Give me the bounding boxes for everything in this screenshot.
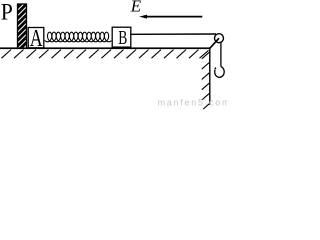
field arrow: [139, 15, 202, 19]
hook tip: [215, 67, 217, 69]
hook: [215, 67, 225, 78]
pulley bracket: [210, 38, 219, 48]
wall post: [15, 0, 29, 54]
svg-text:E: E: [130, 0, 142, 16]
hanging string: [220, 42, 222, 66]
block A: [28, 28, 44, 48]
svg-text:manfen5.com: manfen5.com: [158, 97, 229, 107]
table edge vertical: [209, 47, 211, 105]
ground hatching: [2, 50, 209, 59]
pulley: [215, 34, 224, 43]
svg-text:P: P: [1, 0, 13, 24]
svg-text:A: A: [30, 24, 43, 51]
block B: [112, 27, 131, 47]
svg-text:B: B: [118, 27, 127, 49]
spring: [45, 32, 112, 42]
edge hatching: [202, 52, 210, 109]
string from B to pulley: [131, 33, 216, 35]
ground line: [0, 47, 210, 49]
